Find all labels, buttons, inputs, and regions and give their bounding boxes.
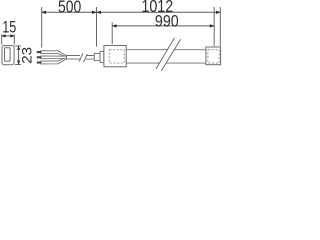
arrow right of 990 dim	[210, 24, 215, 27]
arrow right of 1012 dim	[216, 11, 221, 14]
wire tip 2	[37, 56, 41, 58]
arrow left of 15 dim	[1, 34, 6, 37]
dimension line 15	[1, 35, 14, 37]
dimension line 23 (x=18.6)	[18, 46, 20, 65]
svg-text:23: 23	[20, 47, 35, 64]
hidden tube end in cap (dashed)	[208, 50, 219, 63]
extension line x=220.3 (right end of 1012)	[219, 7, 221, 46]
svg-text:15: 15	[2, 19, 16, 37]
arrow left of 1012 dim	[96, 11, 101, 14]
connector collar small	[94, 53, 100, 60]
cable segment A	[66, 56, 80, 60]
extension line x=214.2 (right end of 990)	[213, 7, 215, 46]
dimension line 500/1012 (y=12.3)	[42, 11, 220, 13]
wire tip 1	[37, 51, 41, 53]
extension line x=1.7 (15 dim left)	[1, 34, 3, 44]
connector collar large	[100, 51, 104, 62]
tube top edge	[126, 49, 206, 51]
wire 2 (middle)	[41, 56, 67, 59]
hidden tube end in block (dashed)	[109, 50, 124, 63]
extension line y=64.5 (23 dim bottom)	[15, 64, 21, 66]
svg-text:990: 990	[155, 13, 179, 31]
arrow left of 500 dim	[41, 11, 46, 14]
background	[0, 0, 226, 78]
arrow right of 500 dim	[92, 11, 97, 14]
arrow right of 15 dim	[10, 34, 15, 37]
svg-text:500: 500	[58, 0, 81, 17]
tube break slash 2	[161, 39, 180, 71]
cable segment B	[86, 56, 94, 60]
cable break slash 1	[79, 53, 83, 61]
arrow bottom of 23 dim	[17, 61, 20, 65]
arrow left of 990 dim	[112, 24, 117, 27]
wire 3 (bottom)	[41, 58, 67, 64]
cable break slash 2	[84, 54, 88, 62]
extension line y=45.9 (23 dim top)	[15, 45, 21, 47]
dimension line 990 (y=25.9)	[112, 25, 214, 27]
extension line x=112.2 (left end of 990)	[111, 22, 113, 44]
arrow top of 23 dim	[17, 46, 20, 50]
end-view profile outer	[2, 46, 14, 65]
wire 1 (top)	[41, 51, 67, 57]
tube bottom edge	[126, 62, 206, 64]
extension line x=41.7 (left end of 500)	[41, 7, 43, 48]
extension line x=14.3 (15 dim right)	[13, 34, 15, 44]
wire tip 3	[37, 62, 41, 64]
tube break slash 1	[156, 38, 175, 69]
extension line x=96.5 (shared 500/1012)	[96, 7, 98, 47]
right end cap	[206, 47, 221, 65]
left end block	[104, 46, 126, 67]
end-view profile inner	[5, 48, 11, 62]
